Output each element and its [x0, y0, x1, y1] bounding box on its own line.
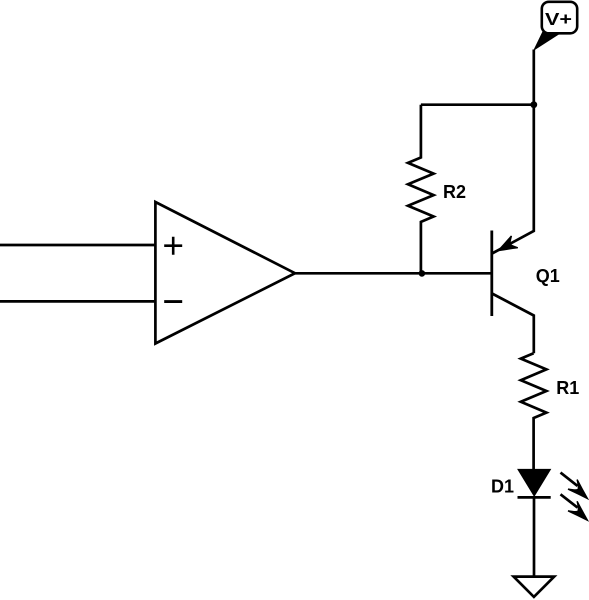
transistor Q1 emitter (wire from junction down, diagonal to bar): [492, 105, 534, 254]
V+ flag tail: [534, 32, 559, 50]
V+ flag box: [542, 2, 577, 34]
wire R2 top to V+ rail: [421, 103, 534, 106]
LED D1 cathode bar: [518, 496, 551, 499]
transistor Q1 base bar: [490, 231, 493, 317]
resistor R2: [408, 105, 434, 274]
ground: [514, 577, 555, 597]
resistor R1: [521, 353, 547, 470]
svg-text:V+: V+: [545, 9, 572, 29]
op-amp plus pin marker: [164, 237, 182, 255]
svg-text:R2: R2: [443, 182, 466, 202]
wire LED cathode to ground: [533, 497, 536, 576]
node junction dot on V+ rail: [530, 101, 537, 108]
svg-text:R1: R1: [556, 378, 579, 398]
svg-text:Q1: Q1: [536, 266, 560, 286]
svg-text:D1: D1: [491, 476, 514, 496]
LED light arrow 2 shaft: [561, 494, 578, 507]
op-amp minus pin marker: [164, 300, 182, 303]
wire junction up to V+ flag: [532, 50, 535, 105]
node junction dot at op-amp output: [419, 270, 426, 277]
transistor Q1 collector: [492, 294, 534, 354]
LED light arrow 1 head: [568, 480, 589, 504]
LED light arrow 2 head: [568, 501, 589, 525]
wire non-inverting input: [0, 244, 155, 247]
LED light arrow 1 shaft: [561, 473, 578, 486]
op-amp U1: [155, 202, 295, 344]
LED D1 anode triangle: [518, 470, 550, 496]
wire op-amp output to transistor base: [295, 272, 492, 275]
wire inverting input: [0, 300, 155, 303]
transistor Q1 emitter arrowhead (PNP): [495, 236, 518, 257]
